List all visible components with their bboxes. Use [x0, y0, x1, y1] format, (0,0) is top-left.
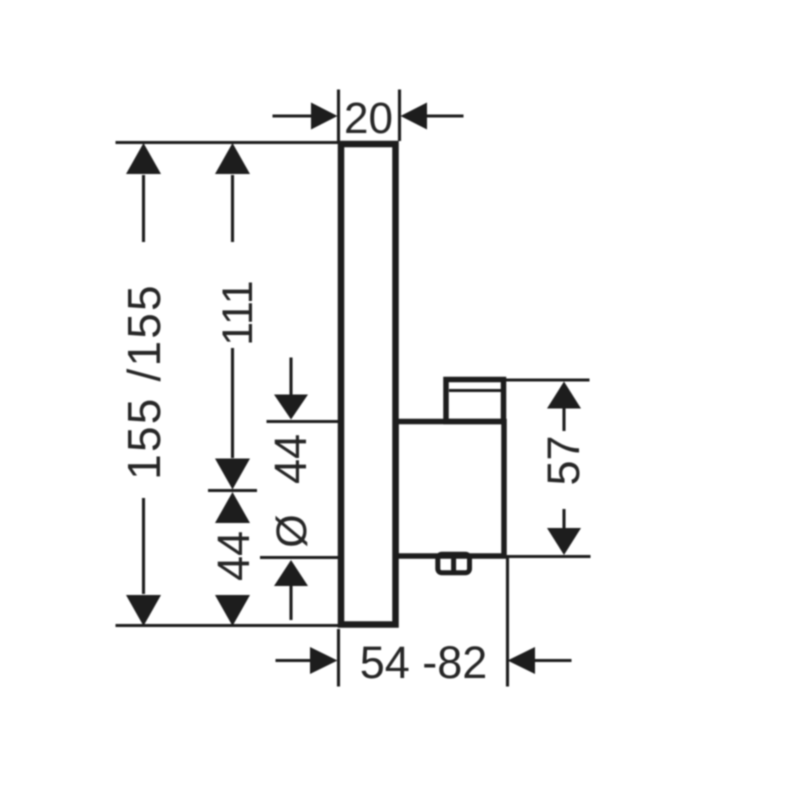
- svg-text:44: 44: [208, 531, 259, 581]
- svg-text:20: 20: [344, 94, 393, 143]
- svg-text:111: 111: [214, 280, 262, 345]
- svg-text:57: 57: [538, 435, 589, 485]
- svg-text:Ø: Ø: [268, 514, 316, 547]
- svg-text:155 /155: 155 /155: [118, 283, 170, 480]
- svg-text:54 -82: 54 -82: [360, 637, 488, 688]
- svg-text:44: 44: [265, 434, 316, 484]
